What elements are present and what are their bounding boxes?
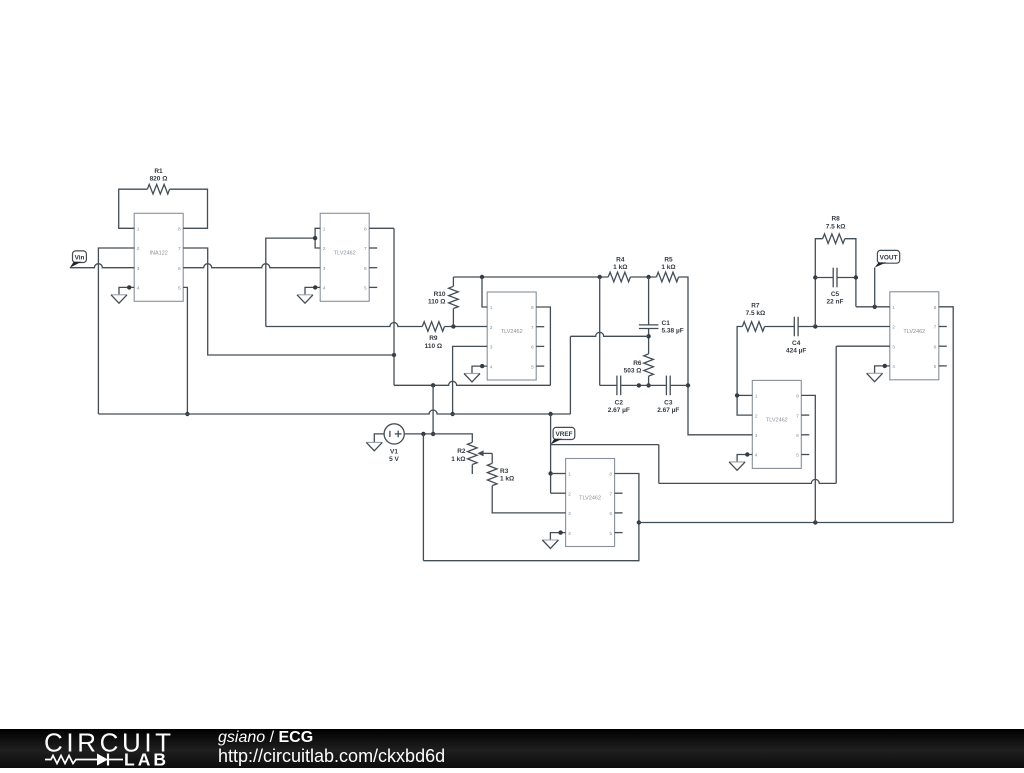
- wire U2 pin1-pin2 tie: [315, 228, 320, 248]
- op-amp U3 TLV2462: [487, 292, 536, 380]
- svg-text:2.67 µF: 2.67 µF: [608, 407, 630, 414]
- svg-text:V1: V1: [390, 449, 398, 456]
- label R7 7.5k: [746, 303, 766, 318]
- label C5 22nF: [827, 291, 844, 306]
- wire V1 minus to ground: [374, 434, 384, 443]
- op-amp U1 INA122: [134, 213, 183, 301]
- svg-text:R10: R10: [434, 291, 446, 298]
- junction C5 right: [854, 275, 858, 279]
- svg-text:7: 7: [796, 413, 799, 419]
- svg-text:4: 4: [568, 531, 571, 537]
- wire U1 pin1 to R1 left: [119, 189, 148, 228]
- svg-text:6: 6: [796, 433, 799, 439]
- capacitor C3: [666, 376, 670, 396]
- op-amp U2 unconnected pin stubs: [369, 248, 377, 287]
- label R4 1k: [613, 257, 627, 272]
- wire VREF vertical: [550, 414, 552, 493]
- wire U1 pin2 down to VREF rail: [98, 248, 134, 414]
- wire U1 pin5 down to VREF rail: [183, 287, 187, 414]
- wire U1 pin6 to U2 pin3: [183, 264, 320, 268]
- svg-text:4: 4: [323, 286, 326, 292]
- junction R10 bottom / R9 wire: [451, 324, 455, 328]
- capacitor C1: [639, 325, 659, 329]
- svg-text:R9: R9: [429, 335, 438, 342]
- svg-text:7: 7: [609, 491, 612, 497]
- svg-text:5: 5: [364, 286, 367, 292]
- svg-text:1: 1: [568, 472, 571, 478]
- wire V1 plus to R2: [404, 434, 472, 442]
- wire R6 bottom lead: [648, 376, 650, 385]
- label R8 7.5k: [826, 216, 846, 231]
- wire R2 wiper to R3: [491, 453, 493, 463]
- svg-text:Vin: Vin: [75, 254, 85, 261]
- svg-text:3: 3: [755, 433, 758, 439]
- svg-text:TLV2462: TLV2462: [501, 329, 523, 335]
- label C2 2.67: [608, 399, 630, 414]
- svg-text:7: 7: [934, 325, 937, 331]
- svg-text:8: 8: [531, 305, 534, 311]
- svg-text:5: 5: [796, 453, 799, 459]
- svg-text:5: 5: [178, 286, 181, 292]
- svg-text:R1: R1: [154, 168, 163, 175]
- svg-text:INA122: INA122: [150, 251, 168, 257]
- svg-text:2: 2: [892, 325, 895, 331]
- label R1 820: [150, 168, 168, 183]
- svg-text:2: 2: [137, 246, 140, 252]
- wire U6 pin8 supply: [939, 307, 953, 523]
- svg-text:1 kΩ: 1 kΩ: [451, 456, 465, 463]
- resistor R8: [823, 234, 845, 244]
- svg-text:C2: C2: [615, 399, 624, 406]
- junction U5 pin8 / 5V distribution: [813, 520, 817, 524]
- junction C4 / R8 branch: [813, 324, 817, 328]
- svg-text:3: 3: [568, 511, 571, 517]
- wire U2 pin8 to 5V rail: [369, 228, 394, 385]
- wire R9 to U3 pin2: [445, 326, 488, 328]
- footer bar: [0, 729, 1024, 768]
- wire R5 right to C3 branch: [679, 277, 688, 385]
- wire U3 pin3 down to VREF rail: [453, 346, 488, 414]
- junction U1 pin5 / VREF rail: [185, 412, 189, 416]
- wire U5 pin8 to 5V distribution: [801, 395, 815, 522]
- capacitor C4: [794, 317, 798, 337]
- label R10 110: [428, 291, 446, 306]
- svg-text:VREF: VREF: [555, 431, 572, 438]
- wire VREF vertical to U4 pin2: [551, 492, 566, 494]
- ground at U6 pin4: [867, 364, 890, 382]
- svg-text:8: 8: [609, 472, 612, 478]
- label R9 110: [425, 335, 443, 350]
- junction C3 right / R5 branch: [686, 383, 690, 387]
- wire U2 output to R9 node: [266, 238, 315, 326]
- svg-text:7.5 kΩ: 7.5 kΩ: [746, 310, 766, 317]
- label R3 1k: [500, 468, 514, 483]
- op-amp U4 TLV2462: [566, 459, 615, 547]
- junction U3 pin1 tap: [480, 275, 484, 279]
- svg-text:8: 8: [934, 305, 937, 311]
- svg-text:R4: R4: [616, 257, 625, 264]
- wire Vin to U1 pin3: [70, 264, 134, 268]
- wire C1 top lead: [648, 277, 650, 325]
- footer title text: [0, 772, 1024, 773]
- svg-text:TLV2462: TLV2462: [579, 496, 601, 502]
- svg-text:6: 6: [531, 345, 534, 351]
- resistor R10: [449, 286, 459, 308]
- junction U3 pin3 / VREF rail: [450, 412, 454, 416]
- wire feedback to U6 pin1: [856, 306, 890, 308]
- resistor R3: [487, 463, 497, 485]
- label C4 424: [786, 340, 806, 355]
- resistor R6: [644, 354, 654, 376]
- svg-text:4: 4: [755, 453, 758, 459]
- junction U4 supply / 5V distribution: [637, 520, 641, 524]
- wire R7 left to U5 pin1/pin2: [737, 327, 752, 416]
- svg-text:8: 8: [178, 227, 181, 233]
- wire R10 top lead: [452, 277, 454, 286]
- svg-text:8: 8: [364, 227, 367, 233]
- net flag VREF: [551, 427, 575, 444]
- wire V1 to 5V rail: [432, 385, 434, 434]
- svg-text:C5: C5: [831, 291, 840, 298]
- svg-text:3: 3: [137, 266, 140, 272]
- wire R1 right to U1 pin8: [170, 189, 208, 228]
- ground at V1: [366, 441, 382, 443]
- wire C1 bottom to R6 top: [648, 329, 650, 354]
- wire C2 branch down from R4 left: [599, 277, 601, 385]
- wire R3 to U4 pin3: [492, 486, 565, 513]
- svg-text:1: 1: [892, 305, 895, 311]
- svg-text:5.38 µF: 5.38 µF: [662, 328, 684, 335]
- svg-text:4: 4: [892, 364, 895, 370]
- wire U4 pin1 tie: [551, 473, 566, 475]
- junction C1 bottom / VREF link: [646, 334, 650, 338]
- wire R8 left branch: [815, 239, 822, 327]
- svg-text:5 V: 5 V: [389, 456, 399, 463]
- wire U2 output to R9: [266, 323, 423, 327]
- junction C5 left: [813, 275, 817, 279]
- svg-text:TLV2462: TLV2462: [766, 418, 788, 424]
- svg-text:424 µF: 424 µF: [786, 348, 806, 355]
- wire VOUT to U6 pin1 wire: [874, 268, 876, 307]
- svg-text:TLV2462: TLV2462: [903, 329, 925, 335]
- svg-text:5: 5: [531, 364, 534, 370]
- label V1 5V: [389, 449, 399, 464]
- svg-text:7.5 kΩ: 7.5 kΩ: [826, 223, 846, 230]
- svg-text:110 Ω: 110 Ω: [428, 299, 446, 306]
- svg-text:6: 6: [609, 511, 612, 517]
- junction U2 output tie: [313, 236, 317, 240]
- wire C2 left lead: [600, 384, 617, 386]
- label C1 5.38: [662, 320, 684, 335]
- wire VREF rail: [98, 410, 570, 414]
- svg-text:820 Ω: 820 Ω: [150, 176, 168, 183]
- wire tap down to U3 pin1: [482, 277, 487, 307]
- wire VREF link to C1 bottom: [570, 332, 648, 336]
- svg-text:2: 2: [568, 491, 571, 497]
- resistor R9: [422, 322, 444, 332]
- svg-text:6: 6: [364, 266, 367, 272]
- svg-text:1: 1: [137, 227, 140, 233]
- junction C2-C3 segment: [637, 383, 641, 387]
- svg-text:5: 5: [934, 364, 937, 370]
- svg-text:7: 7: [364, 246, 367, 252]
- svg-text:1 kΩ: 1 kΩ: [661, 264, 675, 271]
- junction V1 wire / U4 supply branch: [421, 432, 425, 436]
- wire C4 to U6 pin2: [798, 326, 890, 328]
- svg-text:1: 1: [490, 305, 493, 311]
- wire C5 right lead: [837, 277, 856, 279]
- svg-text:2: 2: [490, 325, 493, 331]
- svg-text:1 kΩ: 1 kΩ: [613, 264, 627, 271]
- capacitor C2: [617, 376, 621, 396]
- svg-text:1 kΩ: 1 kΩ: [500, 476, 514, 483]
- junction R4-R5 / C1 top: [646, 275, 650, 279]
- svg-text:8: 8: [796, 394, 799, 400]
- wire U4 pin8 supply loop: [423, 434, 639, 561]
- op-amp U6 TLV2462: [890, 292, 939, 380]
- ground at U1 pin4: [111, 285, 134, 303]
- svg-text:R7: R7: [751, 303, 760, 310]
- wire VREF link vertical: [569, 336, 571, 414]
- op-amp U4 unconnected pin stubs: [615, 493, 623, 532]
- svg-text:22 nF: 22 nF: [827, 299, 844, 306]
- resistor R7: [742, 322, 764, 332]
- op-amp U2 TLV2462: [320, 213, 369, 301]
- wire C3 right lead: [670, 384, 688, 386]
- svg-text:7: 7: [178, 246, 181, 252]
- svg-text:6: 6: [178, 266, 181, 272]
- junction R4 left / C2 branch: [598, 275, 602, 279]
- svg-text:VOUT: VOUT: [880, 254, 898, 261]
- wire 5V distribution to U5/U6: [639, 522, 953, 524]
- svg-text:3: 3: [892, 344, 895, 350]
- wire R4 to R5: [630, 276, 656, 278]
- svg-text:110 Ω: 110 Ω: [425, 343, 443, 350]
- svg-text:2: 2: [755, 413, 758, 419]
- svg-text:C3: C3: [664, 399, 673, 406]
- junction VREF rail / VREF flag: [548, 412, 552, 416]
- svg-text:LAB: LAB: [124, 750, 169, 769]
- op-amp U5 TLV2462: [752, 380, 801, 468]
- svg-text:2: 2: [323, 246, 326, 252]
- svg-text:7: 7: [531, 325, 534, 331]
- wire R8 right branch: [845, 239, 856, 307]
- wire 5V to U3 pin8: [536, 307, 550, 385]
- label C3 2.67: [657, 399, 679, 414]
- svg-text:2.67 µF: 2.67 µF: [657, 407, 679, 414]
- svg-text:C4: C4: [792, 340, 801, 347]
- wire 5V rail horizontal: [394, 381, 550, 385]
- ground at U3 pin4: [464, 364, 487, 382]
- junction VOUT tap: [873, 305, 877, 309]
- junction 5V rail / V1 branch: [431, 383, 435, 387]
- op-amp U3 unconnected pin stubs: [536, 327, 544, 366]
- svg-text:1: 1: [323, 227, 326, 233]
- label R2 1k: [451, 448, 466, 463]
- resistor R5: [656, 272, 678, 282]
- label R6 503: [624, 360, 642, 375]
- junction U5 pin1 tie: [735, 393, 739, 397]
- wire R10 bottom lead: [452, 309, 454, 327]
- potentiometer R2: [468, 442, 493, 474]
- svg-text:6: 6: [934, 344, 937, 350]
- ground at U2 pin4: [297, 285, 320, 303]
- logo resistor-diode glyph: [45, 756, 97, 764]
- svg-text:4: 4: [137, 286, 140, 292]
- junction V1 wire at 5V branch: [431, 432, 435, 436]
- svg-text:3: 3: [490, 345, 493, 351]
- wire R7 to C4: [765, 326, 795, 328]
- resistor R4: [608, 272, 630, 282]
- svg-text:TLV2462: TLV2462: [334, 251, 356, 257]
- wire VREF to U6 pin3: [551, 346, 890, 483]
- junction R6 bottom: [646, 383, 650, 387]
- svg-text:R6: R6: [633, 360, 642, 367]
- CircuitLab logo: [44, 729, 234, 773]
- wire C5 left lead: [815, 277, 833, 279]
- op-amp U5 unconnected pin stubs: [801, 415, 809, 454]
- junction VREF / U4 pin1: [548, 471, 552, 475]
- voltage source V1: [384, 424, 404, 444]
- junction U1 pin7 / 5V vertical: [392, 353, 396, 357]
- svg-text:R8: R8: [831, 216, 840, 223]
- wire U1 pin7 to 5V rail: [183, 248, 394, 355]
- ground at U5 pin4: [729, 452, 752, 470]
- svg-text:503 Ω: 503 Ω: [624, 368, 642, 375]
- net flag VOUT: [875, 250, 900, 267]
- resistor R1: [147, 184, 169, 194]
- svg-text:3: 3: [323, 266, 326, 272]
- wire R10 top to R4 left: [453, 276, 608, 278]
- svg-text:R2: R2: [457, 448, 466, 455]
- op-amp U6 unconnected pin stubs: [939, 327, 947, 366]
- svg-text:R3: R3: [500, 468, 509, 475]
- svg-text:4: 4: [490, 364, 493, 370]
- svg-text:R5: R5: [664, 257, 673, 264]
- svg-text:C1: C1: [662, 320, 671, 327]
- ground at U4 pin4: [542, 530, 565, 548]
- label R5 1k: [661, 257, 675, 272]
- wire C3 branch to U5 pin3: [688, 385, 752, 434]
- svg-text:5: 5: [609, 531, 612, 537]
- svg-text:1: 1: [755, 394, 758, 400]
- capacitor C5: [833, 268, 837, 288]
- net flag Vin: [70, 251, 87, 268]
- wire C2 to C3: [621, 384, 667, 386]
